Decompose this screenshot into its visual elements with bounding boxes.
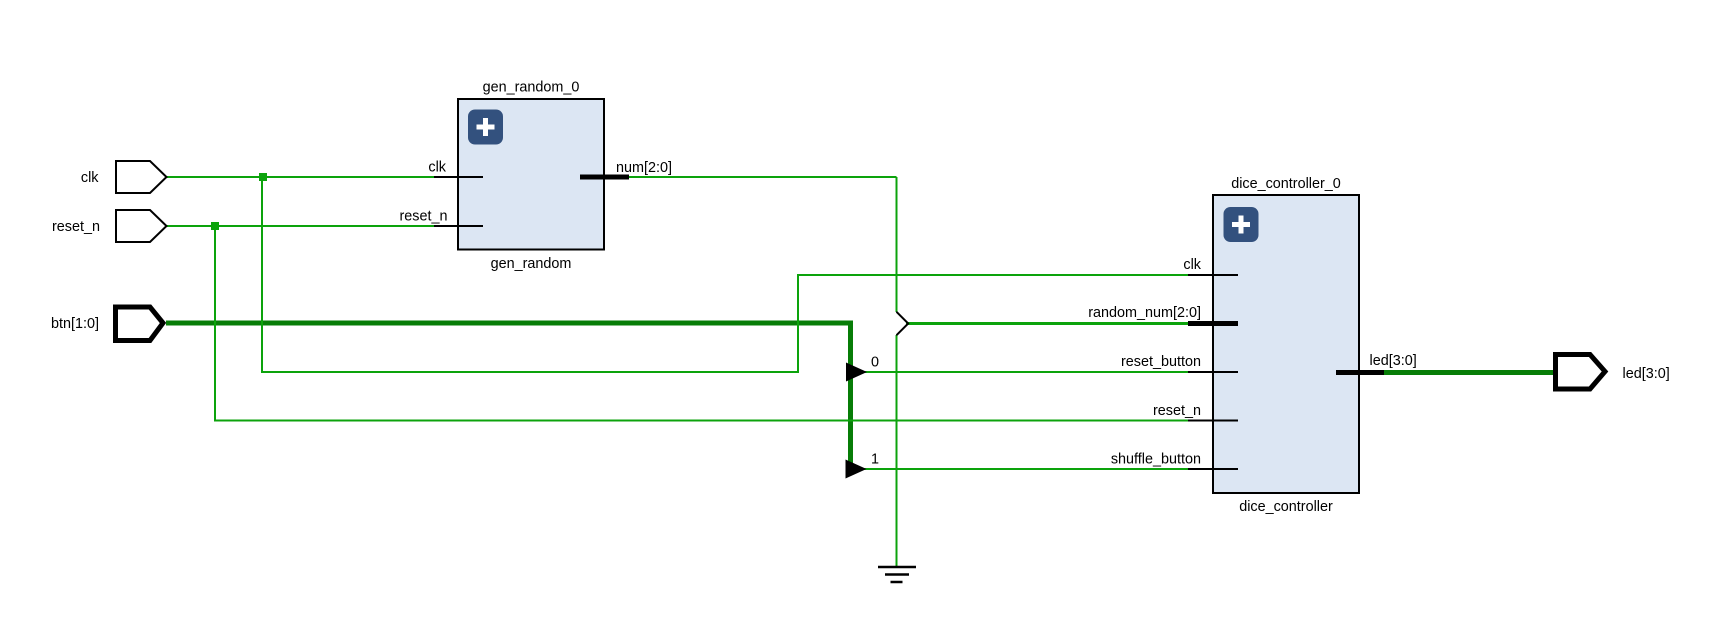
svg-text:dice_controller_0: dice_controller_0 (1231, 176, 1341, 192)
svg-text:reset_button: reset_button (1121, 354, 1201, 370)
svg-text:led[3:0]: led[3:0] (1370, 353, 1417, 369)
svg-text:reset_n: reset_n (1153, 403, 1201, 419)
svg-text:1: 1 (871, 452, 879, 468)
svg-text:clk: clk (1183, 257, 1201, 273)
svg-text:shuffle_button: shuffle_button (1111, 452, 1201, 468)
svg-text:gen_random_0: gen_random_0 (483, 80, 580, 96)
svg-text:num[2:0]: num[2:0] (616, 160, 672, 176)
svg-text:0: 0 (871, 355, 879, 371)
svg-text:reset_n: reset_n (52, 219, 100, 235)
svg-text:dice_controller: dice_controller (1239, 499, 1333, 515)
svg-text:gen_random: gen_random (491, 256, 572, 272)
svg-text:reset_n: reset_n (400, 209, 448, 225)
svg-text:btn[1:0]: btn[1:0] (51, 316, 99, 332)
svg-text:random_num[2:0]: random_num[2:0] (1088, 305, 1201, 321)
svg-text:led[3:0]: led[3:0] (1623, 366, 1670, 382)
svg-text:clk: clk (428, 160, 446, 176)
svg-text:clk: clk (81, 170, 99, 186)
